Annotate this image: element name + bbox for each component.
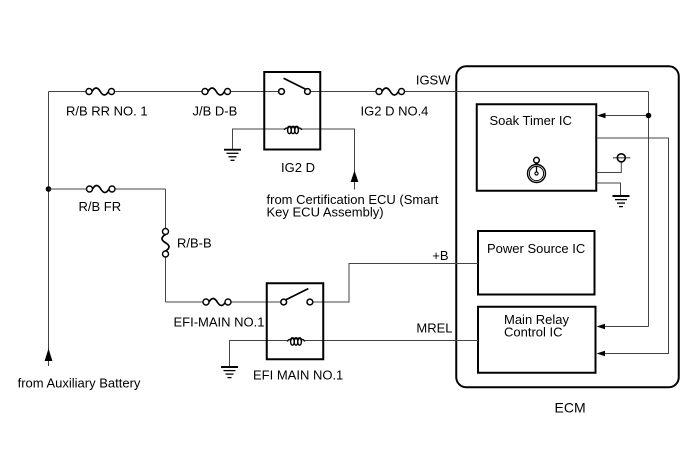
arrow: from Certification ECU (up) — [351, 171, 359, 183]
wire: IGSW vertical drop inside ECM — [648, 92, 650, 327]
ground: EFI MAIN relay coil ground — [221, 367, 238, 378]
fuse R/B-B (vertical) — [162, 229, 169, 258]
wire: EFI MAIN relay coil line, ground tail left, MREL to Main Relay Control IC right — [230, 341, 288, 367]
relay IG2 D contacts — [279, 89, 285, 95]
relay EFI MAIN switch blade — [286, 289, 308, 300]
terminal circle on Soak Timer IC — [617, 154, 625, 162]
ground: ECM internal ground — [613, 196, 630, 207]
wire: bottom of IGSW drop into Main Relay Control IC upper arrow — [605, 326, 649, 328]
node: junction dot on left vertical (R/B FR branch) — [46, 186, 52, 192]
svg-text:R/B RR NO. 1: R/B RR NO. 1 — [66, 103, 148, 118]
stopwatch icon in Soak Timer IC — [528, 157, 546, 182]
wire: battery feed top horizontal to IG2 D relay left contact — [49, 91, 90, 93]
fuse R/B FR — [87, 186, 116, 193]
svg-text:R/B FR: R/B FR — [79, 199, 122, 214]
arrow into Main Relay Control IC upper — [597, 324, 606, 329]
Power Source IC box U2 — [478, 231, 595, 295]
svg-text:EFI MAIN NO.1: EFI MAIN NO.1 — [253, 367, 343, 382]
svg-text:ECM: ECM — [555, 400, 586, 416]
wire: R/B FR branch horizontal — [49, 188, 90, 190]
svg-text:MREL: MREL — [416, 321, 452, 336]
Soak Timer IC box U1 — [477, 104, 597, 191]
wire: IG2 D relay coil line with ground tail and certification feed — [233, 129, 285, 150]
Main Relay Control IC box U3 — [478, 307, 596, 373]
node: junction dot on IGSW drop — [646, 113, 652, 119]
wire: EFI MAIN relay right contact up to +B into Power Source IC — [310, 264, 478, 303]
relay EFI MAIN coil — [287, 338, 304, 345]
svg-text:IG2 D NO.4: IG2 D NO.4 — [361, 103, 429, 118]
svg-text:Power Source IC: Power Source IC — [487, 241, 585, 256]
svg-text:EFI-MAIN NO.1: EFI-MAIN NO.1 — [174, 314, 265, 329]
fuse EFI-MAIN NO.1 — [203, 299, 231, 306]
wire: from terminal circle down and left into Soak Timer IC — [597, 162, 622, 173]
wire: Soak Timer IC ground stub — [597, 183, 621, 196]
fuse R/B RR NO. 1 — [86, 88, 115, 95]
fuse J/B D-B — [202, 88, 231, 95]
arrow into Soak Timer IC (IGSW) — [597, 113, 606, 118]
arrow into Main Relay Control IC lower — [597, 351, 606, 356]
svg-text:J/B D-B: J/B D-B — [193, 103, 238, 118]
svg-text:+B: +B — [432, 248, 448, 263]
relay IG2 D coil — [284, 126, 301, 133]
svg-text:R/B-B: R/B-B — [177, 235, 212, 250]
relay EFI MAIN NO.1 box — [267, 283, 324, 359]
ground: IG2 D relay coil ground — [224, 150, 241, 161]
ECM outer box — [456, 66, 679, 387]
svg-text:Control IC: Control IC — [504, 325, 563, 340]
wire: branch to Soak Timer IC arrow — [605, 115, 649, 117]
svg-text:IG2 D: IG2 D — [281, 160, 315, 175]
svg-text:IGSW: IGSW — [416, 73, 451, 88]
wire: terminal circle horizontal bar — [613, 157, 630, 159]
wire: IG2 D relay right contact to ECM interior corner (IGSW) — [308, 91, 380, 93]
relay EFI MAIN contacts — [281, 299, 287, 305]
fuse IG2 D NO.4 — [376, 88, 405, 95]
arrow: from Auxiliary Battery (up) — [45, 349, 53, 362]
wire: vertical through R/B-B fuse — [165, 189, 167, 232]
wire: left vertical from auxiliary battery — [48, 92, 50, 367]
wire: horizontal to EFI MAIN relay left contact — [166, 301, 207, 303]
relay IG2 D switch blade — [284, 78, 306, 89]
svg-text:from Auxiliary Battery: from Auxiliary Battery — [18, 376, 141, 391]
relay IG2 D box — [264, 72, 320, 150]
svg-text:Soak Timer IC: Soak Timer IC — [490, 113, 572, 128]
svg-text:Key ECU Assembly): Key ECU Assembly) — [267, 205, 384, 220]
wire: Soak Timer IC output right stub, down, into Main Relay Control IC lower arrow — [597, 138, 669, 354]
